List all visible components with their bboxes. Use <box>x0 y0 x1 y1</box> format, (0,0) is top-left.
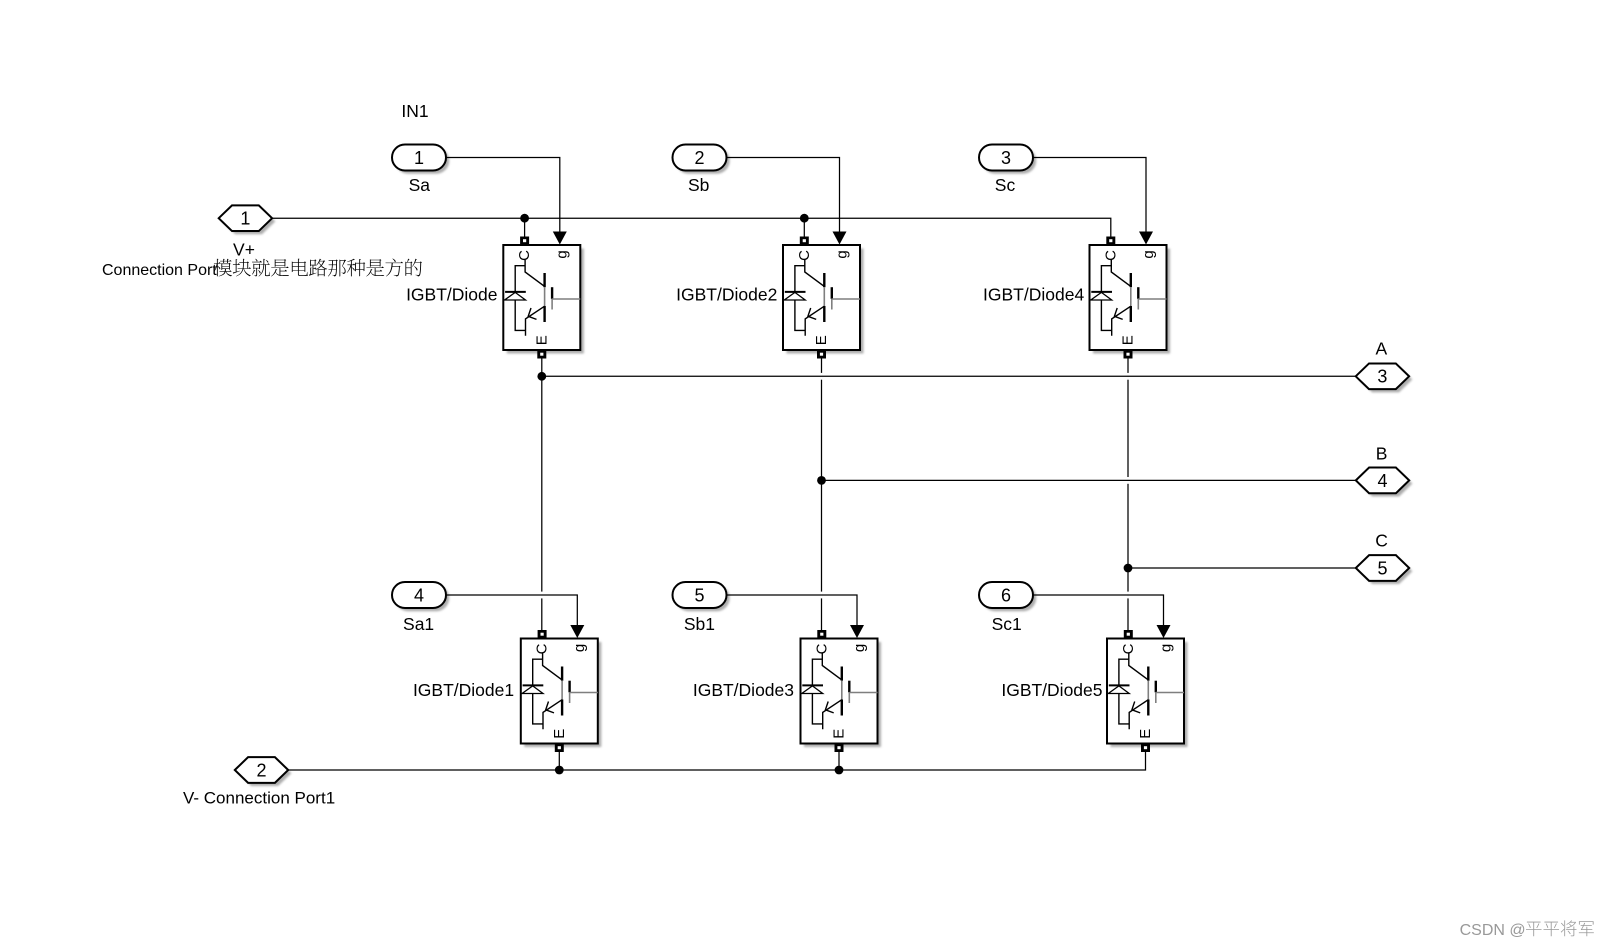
svg-text:3: 3 <box>1377 367 1387 387</box>
svg-text:C: C <box>1102 250 1119 261</box>
svg-text:Connection Port: Connection Port <box>102 262 217 279</box>
wire phase C to port 5 <box>1128 567 1356 569</box>
svg-text:CSDN @: CSDN @ <box>1460 922 1526 939</box>
wire Sb1 to g of IGBT/Diode3 <box>726 595 858 625</box>
svg-text:g: g <box>1140 250 1157 258</box>
port square C of U2 <box>800 237 809 246</box>
svg-text:4: 4 <box>414 585 424 605</box>
svg-text:C: C <box>534 643 551 654</box>
wire column B vertical <box>821 359 823 631</box>
svg-text:6: 6 <box>1001 585 1011 605</box>
svg-text:C: C <box>1120 643 1137 654</box>
antiparallel diode of U1 <box>515 266 525 292</box>
junction V- to IGBT/Diode1 E <box>555 766 564 775</box>
svg-text:IGBT/Diode5: IGBT/Diode5 <box>1001 680 1102 700</box>
svg-text:g: g <box>833 250 850 258</box>
wire V+ stub to IGBT/Diode <box>524 218 526 236</box>
antiparallel diode of U4 <box>1101 266 1111 292</box>
port square C of U5 <box>1124 630 1133 639</box>
wire Sb to g of IGBT/Diode2 <box>726 158 840 232</box>
svg-text:IGBT/Diode3: IGBT/Diode3 <box>693 680 794 700</box>
svg-text:3: 3 <box>1001 148 1011 168</box>
wire E stub IGBT/Diode1 <box>558 752 560 770</box>
IGBT transistor symbol of U2 <box>805 260 825 286</box>
svg-text:g: g <box>554 250 571 258</box>
svg-text:1: 1 <box>240 209 250 229</box>
svg-text:A: A <box>1376 338 1388 358</box>
svg-text:2: 2 <box>256 760 266 780</box>
antiparallel diode of U3 <box>812 659 822 685</box>
svg-text:E: E <box>1120 335 1137 345</box>
svg-text:V+: V+ <box>233 239 255 259</box>
svg-text:Sc1: Sc1 <box>992 614 1022 634</box>
junction V+ to IGBT/Diode2 C <box>800 214 809 223</box>
svg-text:IGBT/Diode4: IGBT/Diode4 <box>983 284 1084 304</box>
wire column A vertical <box>541 359 543 631</box>
inport 2 (Sb) <box>673 145 730 174</box>
IGBT/Diode block U5 (IGBT/Diode5) <box>1107 625 1188 752</box>
svg-text:2: 2 <box>694 148 704 168</box>
annotation Connection Port note <box>102 259 422 279</box>
gate input arrowhead of U5 <box>1157 625 1171 638</box>
wire V- bus <box>288 752 1145 770</box>
svg-text:IGBT/Diode1: IGBT/Diode1 <box>413 680 514 700</box>
wire phase A to port 3 <box>542 375 1356 377</box>
gate input arrowhead of U4 <box>1139 232 1153 245</box>
IGBT/Diode block U3 (IGBT/Diode3) <box>801 625 882 752</box>
svg-text:C: C <box>796 250 813 261</box>
svg-text:E: E <box>551 729 568 739</box>
svg-text:Sc: Sc <box>995 175 1016 195</box>
wire Sa to g of IGBT/Diode <box>446 158 560 232</box>
connection port 3 (A) <box>1356 363 1413 392</box>
svg-text:5: 5 <box>1377 558 1387 578</box>
junction V+ to IGBT/Diode C <box>520 214 529 223</box>
inport 4 (Sa1) <box>392 582 449 611</box>
connection port 1 (V+) <box>219 205 276 234</box>
wire phase B to port 4 <box>822 479 1357 481</box>
port square E of U4 <box>1124 350 1133 359</box>
junction phase C tap <box>1124 564 1133 573</box>
IGBT/Diode block U4 (IGBT/Diode4) <box>1090 232 1171 359</box>
svg-text:C: C <box>813 643 830 654</box>
svg-text:IN1: IN1 <box>401 101 428 121</box>
IGBT transistor symbol of U1b <box>543 654 563 680</box>
IGBT/Diode block U1 (IGBT/Diode) <box>503 232 584 359</box>
svg-text:V- Connection Port1: V- Connection Port1 <box>183 789 335 808</box>
port square C of U1 <box>520 237 529 246</box>
svg-text:E: E <box>533 335 550 345</box>
svg-text:E: E <box>813 335 830 345</box>
connection port 5 (C) <box>1356 555 1413 584</box>
gate input arrowhead of U1 <box>553 232 567 245</box>
wire V+ bus <box>272 218 1111 236</box>
watermark CSDN <box>1460 920 1594 939</box>
inport 3 (Sc) <box>979 145 1036 174</box>
port square E of U5 <box>1141 744 1150 753</box>
gate input arrowhead of U2 <box>833 232 847 245</box>
svg-text:C: C <box>516 250 533 261</box>
antiparallel diode of U5 <box>1119 659 1129 685</box>
wire E stub IGBT/Diode3 <box>838 752 840 770</box>
svg-text:E: E <box>1137 729 1154 739</box>
svg-text:IGBT/Diode: IGBT/Diode <box>406 284 497 304</box>
junction phase B tap <box>817 476 826 485</box>
gate input arrowhead of U3 <box>850 625 864 638</box>
port square C of U1b <box>538 630 547 639</box>
svg-text:g: g <box>571 644 588 652</box>
svg-text:Sb: Sb <box>688 175 709 195</box>
connection port 2 (V-) <box>235 757 292 786</box>
inport 5 (Sb1) <box>673 582 730 611</box>
junction V- to IGBT/Diode3 E <box>835 766 844 775</box>
port square E of U1 <box>537 350 546 359</box>
wire V+ stub to IGBT/Diode2 <box>803 218 805 236</box>
wire Sa1 to g of IGBT/Diode1 <box>446 595 577 625</box>
wire column C vertical <box>1127 359 1129 631</box>
svg-text:4: 4 <box>1377 471 1387 491</box>
inport 1 (Sa) <box>392 145 449 174</box>
svg-text:IGBT/Diode2: IGBT/Diode2 <box>676 284 777 304</box>
antiparallel diode of U2 <box>795 266 805 292</box>
port square E of U2 <box>817 350 826 359</box>
port square E of U3 <box>835 744 844 753</box>
svg-text:Sa: Sa <box>409 175 431 195</box>
connection port 4 (B) <box>1356 468 1413 497</box>
IGBT/Diode block U2 (IGBT/Diode2) <box>783 232 864 359</box>
port square C of U3 <box>817 630 826 639</box>
IGBT transistor symbol of U1 <box>525 260 545 286</box>
inport 6 (Sc1) <box>979 582 1036 611</box>
IGBT transistor symbol of U4 <box>1111 260 1131 286</box>
svg-text:5: 5 <box>694 585 704 605</box>
svg-text:g: g <box>851 644 868 652</box>
wire Sc1 to g of IGBT/Diode5 <box>1032 595 1164 625</box>
junction phase A tap <box>537 372 546 381</box>
svg-text:g: g <box>1157 644 1174 652</box>
svg-text:B: B <box>1376 443 1388 463</box>
wire crossing gaps <box>821 373 823 380</box>
gate input arrowhead of U1b <box>570 625 584 638</box>
svg-text:Sb1: Sb1 <box>684 614 715 634</box>
antiparallel diode of U1b <box>533 659 543 685</box>
IGBT/Diode block U1b (IGBT/Diode1) <box>521 625 602 752</box>
svg-text:E: E <box>831 729 848 739</box>
svg-text:Sa1: Sa1 <box>403 614 434 634</box>
wire Sc to g of IGBT/Diode4 <box>1032 158 1146 232</box>
svg-text:1: 1 <box>414 148 424 168</box>
port square E of U1b <box>555 744 564 753</box>
IGBT transistor symbol of U5 <box>1129 654 1149 680</box>
svg-text:C: C <box>1375 531 1388 551</box>
IGBT transistor symbol of U3 <box>822 654 842 680</box>
port square C of U4 <box>1106 237 1115 246</box>
